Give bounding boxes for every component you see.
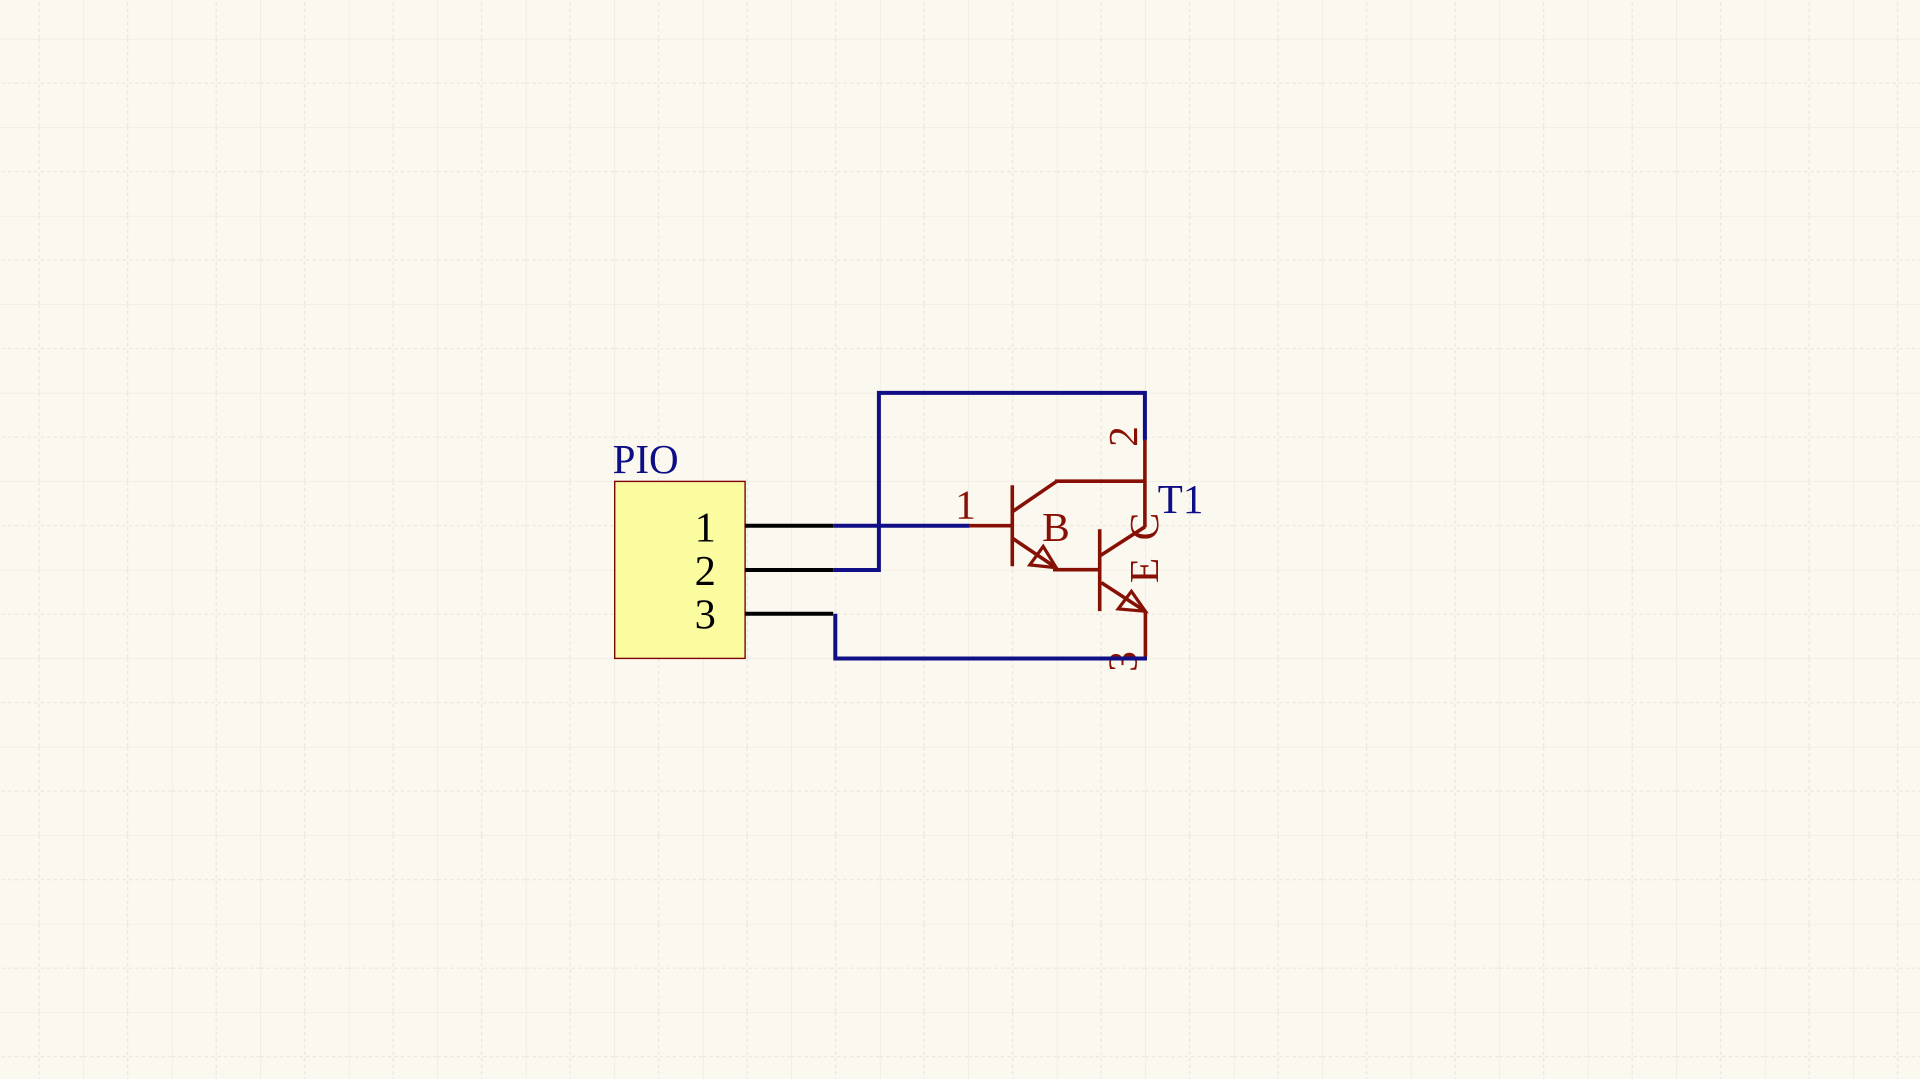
svg-text:3: 3 [1100,651,1146,672]
svg-text:E: E [1121,558,1167,583]
svg-text:1: 1 [955,481,976,527]
svg-text:T1: T1 [1158,476,1204,522]
svg-text:1: 1 [695,504,716,551]
svg-text:2: 2 [695,548,716,595]
svg-text:PIO: PIO [613,436,679,482]
svg-text:3: 3 [695,592,716,639]
svg-text:B: B [1042,504,1070,550]
svg-text:2: 2 [1100,426,1146,447]
